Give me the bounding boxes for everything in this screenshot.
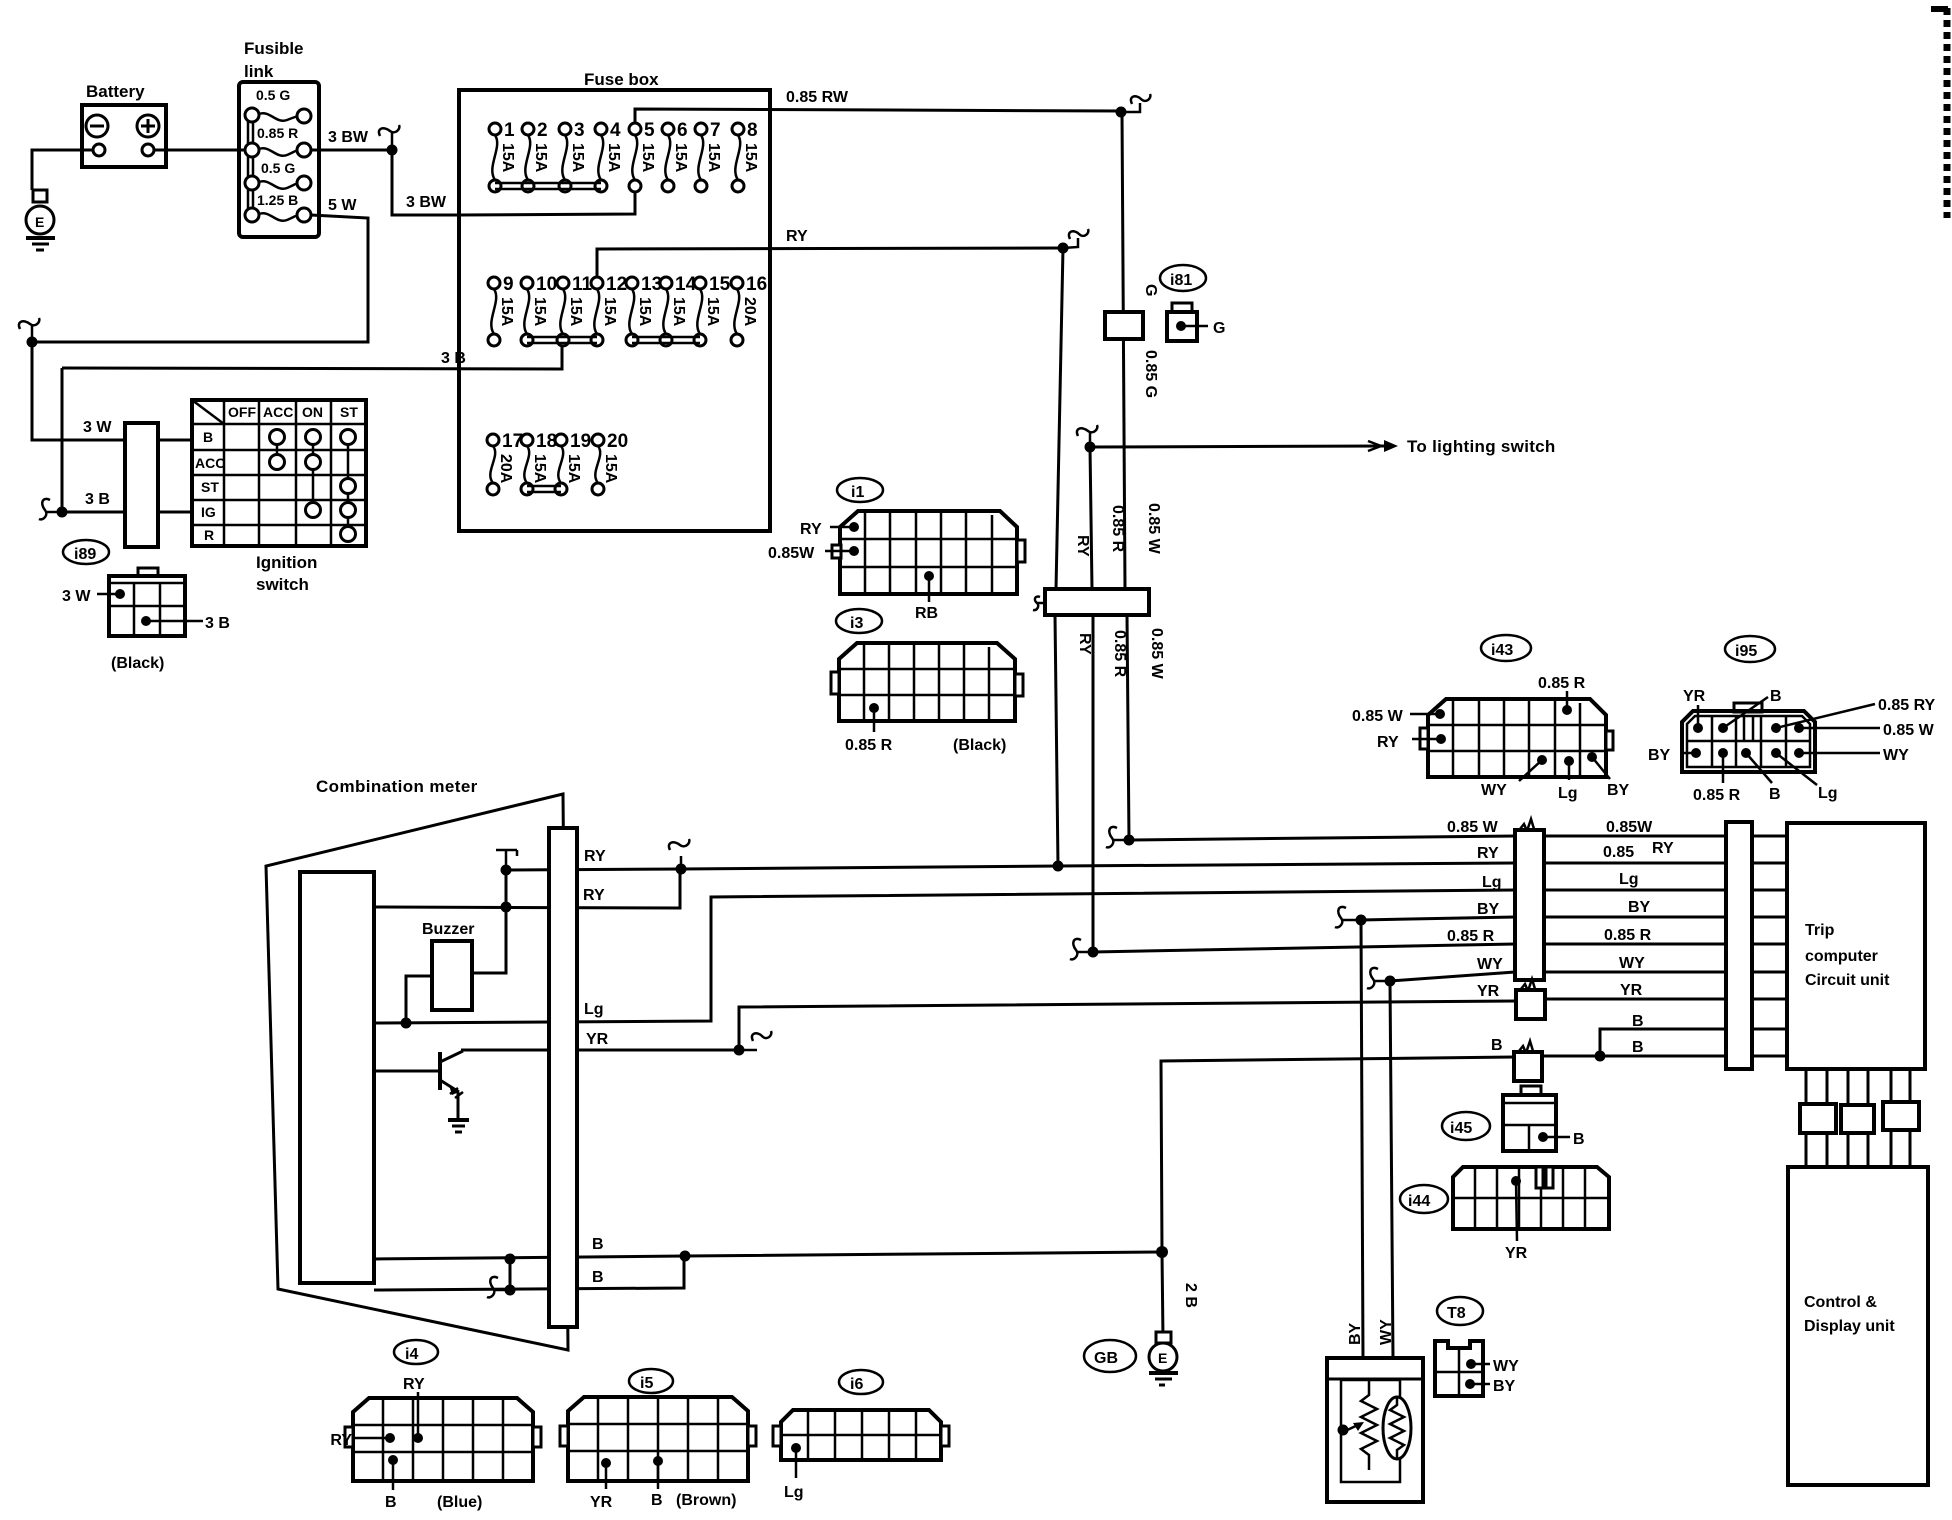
connector box YR xyxy=(1516,979,1545,1019)
node GB junction xyxy=(1156,1246,1168,1258)
pin B i4 xyxy=(385,1455,398,1511)
node YR xyxy=(734,1045,745,1056)
svg-text:2: 2 xyxy=(537,120,548,141)
wire 0.85W below bar xyxy=(1127,615,1129,840)
connector block 1 xyxy=(1800,1104,1836,1133)
svg-text:Buzzer: Buzzer xyxy=(422,921,474,938)
svg-text:15: 15 xyxy=(709,274,731,295)
svg-text:RY: RY xyxy=(1652,840,1674,857)
ignition contacts ACC column xyxy=(270,430,285,470)
svg-text:i95: i95 xyxy=(1735,643,1757,660)
connector bar mid xyxy=(1515,819,1544,980)
ignition contacts ST column xyxy=(341,430,356,542)
wire WY vertical xyxy=(1390,981,1393,1358)
svg-text:19: 19 xyxy=(570,431,591,452)
pin YR i44 xyxy=(1505,1176,1528,1262)
ground E1 xyxy=(26,190,55,250)
svg-text:4: 4 xyxy=(610,120,621,141)
svg-text:3: 3 xyxy=(574,120,585,141)
node 3BW junction xyxy=(387,145,398,156)
svg-text:0.85 R: 0.85 R xyxy=(1604,927,1652,944)
svg-text:E: E xyxy=(1158,1350,1167,1366)
fuse 15 15A xyxy=(694,274,731,346)
pin 0.85W i1 xyxy=(768,545,859,562)
svg-text:B: B xyxy=(385,1494,397,1511)
svg-text:2 B: 2 B xyxy=(1182,1283,1199,1308)
wire to lighting switch xyxy=(1090,446,1384,447)
fuse 18 15A xyxy=(521,431,557,495)
svg-text:B: B xyxy=(1573,1131,1585,1148)
fuse 3 15A xyxy=(559,120,586,192)
connector continuation symbol xyxy=(1063,229,1088,248)
svg-text:RY: RY xyxy=(800,521,822,538)
svg-text:WY: WY xyxy=(1481,782,1507,799)
pin 3B i89 xyxy=(141,615,230,632)
svg-text:0.85 R: 0.85 R xyxy=(1693,787,1741,804)
svg-text:Fuse box: Fuse box xyxy=(584,70,659,89)
fuse 1 15A xyxy=(489,120,516,192)
connector block 2 xyxy=(1841,1105,1874,1133)
svg-text:i6: i6 xyxy=(850,1376,863,1393)
svg-text:16: 16 xyxy=(746,274,767,295)
svg-text:3 BW: 3 BW xyxy=(328,129,369,146)
ignition switch table xyxy=(192,400,366,546)
pin 0.85RY i95 xyxy=(1771,697,1936,733)
connector block 3 xyxy=(1883,1102,1919,1130)
wire BY vertical xyxy=(1361,920,1363,1358)
svg-text:Lg: Lg xyxy=(1619,871,1639,888)
connector box B xyxy=(1514,1041,1542,1081)
arrowhead xyxy=(1384,440,1398,452)
svg-text:3 W: 3 W xyxy=(62,588,91,605)
wires bar to trip unit xyxy=(1752,836,1787,1056)
svg-text:0.85 W: 0.85 W xyxy=(1145,503,1162,555)
fuse 19 15A xyxy=(555,431,591,495)
node B branch xyxy=(1595,1051,1606,1062)
control and display unit xyxy=(1788,1167,1928,1485)
fuse 9 15A xyxy=(488,274,515,346)
svg-text:ON: ON xyxy=(302,404,323,420)
svg-text:Trip: Trip xyxy=(1805,922,1835,939)
svg-text:G: G xyxy=(1142,284,1159,296)
svg-text:WY: WY xyxy=(1883,747,1909,764)
svg-text:11: 11 xyxy=(572,274,593,295)
pin B i95 bottom xyxy=(1741,748,1781,803)
wire battery negative to ground xyxy=(32,150,93,190)
i3 label xyxy=(836,609,882,633)
svg-text:i4: i4 xyxy=(405,1346,418,1363)
svg-text:Display unit: Display unit xyxy=(1804,1318,1895,1335)
svg-text:0.85 R: 0.85 R xyxy=(1538,675,1586,692)
i5 label xyxy=(629,1369,673,1393)
svg-text:15A: 15A xyxy=(636,297,653,327)
svg-text:0.85 W: 0.85 W xyxy=(1447,819,1499,836)
svg-text:G: G xyxy=(1213,320,1225,337)
svg-text:B: B xyxy=(651,1492,663,1509)
svg-text:15A: 15A xyxy=(602,454,619,484)
wire 3B to table xyxy=(158,511,192,514)
i6 label xyxy=(839,1370,883,1394)
B2 stub xyxy=(487,1277,510,1297)
svg-text:0.5 G: 0.5 G xyxy=(261,160,295,176)
svg-text:RY: RY xyxy=(584,848,606,865)
svg-text:0.85 RW: 0.85 RW xyxy=(786,89,849,106)
node 0.85RW junction xyxy=(1116,107,1127,118)
svg-text:ACC: ACC xyxy=(263,404,293,420)
svg-text:15A: 15A xyxy=(531,297,548,327)
svg-text:3 B: 3 B xyxy=(205,615,230,632)
svg-text:0.85W: 0.85W xyxy=(768,545,815,562)
svg-text:5 W: 5 W xyxy=(328,197,357,214)
svg-text:(Brown): (Brown) xyxy=(676,1492,736,1509)
svg-text:GB: GB xyxy=(1094,1350,1118,1367)
svg-text:Ignition: Ignition xyxy=(256,553,317,572)
svg-text:Lg: Lg xyxy=(1558,785,1578,802)
pin WY i95 xyxy=(1794,747,1909,764)
pin 0.85R i3 xyxy=(845,703,893,754)
ignition contacts ON column xyxy=(306,430,321,518)
svg-text:3 W: 3 W xyxy=(83,419,112,436)
bus fuses 13-15 xyxy=(632,337,700,343)
node B2 left xyxy=(505,1285,516,1296)
svg-text:15A: 15A xyxy=(601,297,618,327)
svg-text:15A: 15A xyxy=(639,143,656,173)
svg-text:RY: RY xyxy=(330,1432,352,1449)
svg-text:12: 12 xyxy=(606,274,627,295)
svg-text:computer: computer xyxy=(1805,948,1878,965)
pin RY i4 left xyxy=(330,1432,395,1449)
connector i45 xyxy=(1503,1086,1556,1151)
svg-text:i44: i44 xyxy=(1408,1193,1430,1210)
wire 0.85R below bar xyxy=(1092,615,1095,952)
wire 3W to table xyxy=(158,439,192,442)
node RY corner xyxy=(1058,243,1069,254)
wire 2B ground drop xyxy=(1162,1252,1163,1339)
svg-text:B: B xyxy=(1770,688,1782,705)
node RY1 right xyxy=(1053,861,1064,872)
svg-text:switch: switch xyxy=(256,575,309,594)
connector T8 xyxy=(1435,1341,1483,1396)
buzzer xyxy=(432,941,472,1010)
wire pair 3 below trip xyxy=(1891,1069,1910,1167)
svg-text:link: link xyxy=(244,62,274,81)
svg-text:0.85 RY: 0.85 RY xyxy=(1878,697,1936,714)
svg-text:0.85 G: 0.85 G xyxy=(1142,350,1159,398)
wire G vertical xyxy=(1122,112,1125,589)
svg-text:15A: 15A xyxy=(532,143,549,173)
svg-text:IG: IG xyxy=(201,504,216,520)
fusible link fuse 0.5G xyxy=(245,87,311,123)
T8 label xyxy=(1437,1297,1483,1325)
svg-text:15A: 15A xyxy=(742,143,759,173)
svg-text:20: 20 xyxy=(607,431,628,452)
connector bar top xyxy=(1045,589,1149,615)
ground E2 xyxy=(1149,1332,1178,1385)
svg-text:BY: BY xyxy=(1607,782,1630,799)
i89 label xyxy=(63,540,109,564)
node 3B junction xyxy=(57,507,68,518)
svg-text:WY: WY xyxy=(1619,955,1645,972)
buzzer left lead xyxy=(406,976,432,1023)
i45 label xyxy=(1442,1112,1490,1140)
connector bar right xyxy=(1726,822,1752,1069)
wire pair 1 below trip xyxy=(1806,1069,1827,1167)
connector i3 xyxy=(831,643,1023,721)
svg-text:0.85W: 0.85W xyxy=(1606,819,1653,836)
wire to ignition 3W xyxy=(32,342,125,440)
svg-text:0.85 R: 0.85 R xyxy=(1447,928,1495,945)
svg-text:B: B xyxy=(592,1236,604,1253)
svg-text:B: B xyxy=(1491,1037,1503,1054)
connector continuation symbol xyxy=(1367,968,1390,988)
trip computer circuit unit xyxy=(1787,823,1925,1069)
svg-text:i45: i45 xyxy=(1450,1120,1472,1137)
wire 0.85R horizontal xyxy=(1093,944,1515,952)
svg-text:15A: 15A xyxy=(672,143,689,173)
page edge dashed line xyxy=(1944,8,1951,218)
svg-text:(Black): (Black) xyxy=(953,737,1006,754)
svg-text:0.5 G: 0.5 G xyxy=(256,87,290,103)
wire RY1 xyxy=(506,863,1515,870)
pin 0.85R i43 xyxy=(1538,675,1586,715)
connector continuation symbol xyxy=(19,318,39,342)
resistor sender xyxy=(1361,1380,1377,1470)
connector continuation symbol xyxy=(1121,94,1150,112)
svg-text:WY: WY xyxy=(1378,1319,1395,1345)
svg-text:10: 10 xyxy=(536,274,557,295)
pin YR i5 xyxy=(590,1458,613,1511)
connector continuation symbol xyxy=(39,499,62,519)
svg-text:5: 5 xyxy=(644,120,655,141)
fuse 13 15A xyxy=(626,274,662,346)
connector i1 xyxy=(840,511,1025,594)
node WY xyxy=(1385,976,1396,987)
svg-text:7: 7 xyxy=(710,120,721,141)
svg-text:i1: i1 xyxy=(851,484,864,501)
sender wiper arrow xyxy=(1338,1422,1365,1436)
svg-text:i81: i81 xyxy=(1170,272,1192,289)
svg-text:15A: 15A xyxy=(704,297,721,327)
svg-text:RY: RY xyxy=(1477,845,1499,862)
svg-text:RY: RY xyxy=(1377,734,1399,751)
svg-text:0.85 R: 0.85 R xyxy=(845,737,893,754)
svg-text:15A: 15A xyxy=(565,454,582,484)
i44 label xyxy=(1400,1185,1448,1213)
svg-text:ST: ST xyxy=(340,404,358,420)
i81 label xyxy=(1160,265,1206,291)
wire BY horizontal xyxy=(1361,917,1515,920)
i95 label xyxy=(1725,636,1775,662)
pin WY T8 xyxy=(1466,1358,1519,1375)
svg-text:6: 6 xyxy=(677,120,688,141)
pin B i45 xyxy=(1538,1131,1585,1148)
table headers xyxy=(195,404,358,543)
wire 5W xyxy=(32,215,368,342)
transistor Q1 xyxy=(374,1051,463,1098)
svg-text:Lg: Lg xyxy=(1818,785,1838,802)
svg-text:Lg: Lg xyxy=(1482,874,1502,891)
battery xyxy=(82,105,166,167)
svg-text:B: B xyxy=(203,429,213,445)
node 5W junction xyxy=(27,337,38,348)
node Lg buzzer xyxy=(401,1018,412,1029)
pin BY T8 xyxy=(1465,1378,1516,1395)
fuse 5 15A xyxy=(629,120,656,192)
pin 3W i89 xyxy=(62,588,125,605)
wires mid bar to right bar xyxy=(1541,836,1726,1056)
antenna symbol xyxy=(496,850,517,870)
pin B i95 top xyxy=(1718,688,1782,733)
wire 0.85R vertical xyxy=(1090,447,1092,589)
svg-text:15A: 15A xyxy=(499,143,516,173)
svg-text:15A: 15A xyxy=(567,297,584,327)
svg-text:RY: RY xyxy=(1074,535,1091,557)
connector continuation symbol xyxy=(379,125,399,150)
fuel sender unit xyxy=(1327,1358,1423,1502)
wire B2 xyxy=(374,1256,684,1290)
bus fuses 18-19 xyxy=(527,486,561,492)
svg-text:15A: 15A xyxy=(531,454,548,484)
connector i5 xyxy=(560,1397,756,1481)
fuse 16 20A xyxy=(731,274,767,346)
svg-text:RY: RY xyxy=(583,887,605,904)
connector continuation symbol xyxy=(1106,827,1129,847)
svg-text:BY: BY xyxy=(1628,899,1651,916)
node B1 left xyxy=(505,1254,516,1265)
svg-text:T8: T8 xyxy=(1447,1305,1466,1322)
svg-text:0.85 W: 0.85 W xyxy=(1883,722,1935,739)
wire B1 xyxy=(374,1252,1162,1259)
meter connector bar xyxy=(549,828,577,1327)
svg-text:3 B: 3 B xyxy=(85,491,110,508)
connector continuation symbol xyxy=(739,1031,771,1050)
fuse 20 15A xyxy=(592,431,628,495)
svg-text:Control &: Control & xyxy=(1804,1294,1877,1311)
svg-text:BY: BY xyxy=(1347,1322,1364,1345)
svg-text:OFF: OFF xyxy=(228,404,256,420)
svg-text:BY: BY xyxy=(1493,1378,1516,1395)
connector continuation symbol xyxy=(669,839,689,869)
svg-text:B: B xyxy=(1632,1013,1644,1030)
wire WY horizontal xyxy=(1390,972,1515,981)
fuse 2 15A xyxy=(522,120,549,192)
svg-text:3 B: 3 B xyxy=(441,350,466,367)
svg-text:i43: i43 xyxy=(1491,642,1513,659)
svg-text:YR: YR xyxy=(1477,983,1500,1000)
svg-text:15A: 15A xyxy=(670,297,687,327)
fuse 7 15A xyxy=(695,120,722,192)
fusible link fuse 1.25B xyxy=(245,192,311,222)
svg-text:i5: i5 xyxy=(640,1375,653,1392)
wire pair 2 below trip xyxy=(1848,1069,1868,1167)
svg-text:E: E xyxy=(35,214,44,230)
node B1 mid xyxy=(680,1251,691,1262)
fuse 10 15A xyxy=(521,274,557,346)
svg-text:Combination meter: Combination meter xyxy=(316,777,478,796)
wire RY vertical xyxy=(1056,248,1063,589)
svg-text:15A: 15A xyxy=(605,143,622,173)
i1 label xyxy=(837,478,883,502)
pin WY i43 xyxy=(1481,755,1547,799)
connector i89 xyxy=(109,568,185,636)
node 0.85R xyxy=(1088,947,1099,958)
wire 3B vertical xyxy=(62,368,125,512)
svg-text:WY: WY xyxy=(1477,956,1503,973)
svg-text:ST: ST xyxy=(201,479,219,495)
buzzer right lead xyxy=(472,907,506,973)
svg-text:(Black): (Black) xyxy=(111,655,164,672)
svg-text:i3: i3 xyxy=(850,615,863,632)
pin Lg i95 xyxy=(1771,748,1838,802)
node BY xyxy=(1356,915,1367,926)
GB label xyxy=(1084,1340,1136,1372)
wire RY fuse12 xyxy=(597,248,1063,279)
node RY1 mid xyxy=(676,864,687,875)
connector i6 xyxy=(773,1410,949,1460)
connector i44 xyxy=(1453,1167,1609,1229)
wire battery positive to fusible link xyxy=(154,149,245,152)
bus fuses 1-4 xyxy=(495,183,601,189)
svg-text:3 BW: 3 BW xyxy=(406,194,447,211)
wire 0.85W horizontal xyxy=(1129,836,1515,840)
i43 label xyxy=(1481,635,1531,661)
connector continuation symbol xyxy=(1077,425,1097,447)
pin 0.85R i95 xyxy=(1693,748,1741,804)
svg-text:YR: YR xyxy=(1620,982,1643,999)
pin YR i95 xyxy=(1683,688,1706,733)
svg-text:RY: RY xyxy=(1076,633,1093,655)
fuse 8 15A xyxy=(732,120,759,192)
connector continuation symbol xyxy=(1335,907,1361,927)
connector i81 xyxy=(1167,303,1225,341)
connector i95 xyxy=(1682,703,1815,772)
pin BY i43 xyxy=(1587,752,1630,799)
svg-text:0.85 W: 0.85 W xyxy=(1352,708,1404,725)
svg-text:YR: YR xyxy=(590,1494,613,1511)
pin B i5 xyxy=(651,1456,663,1509)
pin RY i4 top xyxy=(413,1392,423,1443)
svg-text:B: B xyxy=(1632,1039,1644,1056)
bar pigtail xyxy=(1033,597,1045,611)
svg-text:ACC: ACC xyxy=(195,455,225,471)
node 0.85W xyxy=(1124,835,1135,846)
transistor ground xyxy=(448,1092,469,1132)
svg-text:B: B xyxy=(592,1269,604,1286)
svg-text:20A: 20A xyxy=(497,454,514,484)
connector box G xyxy=(1105,312,1143,339)
wire Lg xyxy=(374,890,1515,1023)
svg-text:0.85 R: 0.85 R xyxy=(257,125,298,141)
svg-text:RB: RB xyxy=(915,605,938,622)
fuse box xyxy=(459,90,770,531)
svg-text:RY: RY xyxy=(403,1376,425,1393)
node lighting junction xyxy=(1085,442,1096,453)
ignition switch connector xyxy=(125,423,158,547)
wire RY2 xyxy=(374,869,680,908)
svg-text:RY: RY xyxy=(786,228,808,245)
wire 3BW xyxy=(311,150,458,215)
svg-text:1.25 B: 1.25 B xyxy=(257,192,298,208)
lamp sender xyxy=(1383,1397,1411,1459)
svg-text:(Blue): (Blue) xyxy=(437,1494,482,1511)
wire 3BW to fuse5 xyxy=(458,190,635,215)
wire 0.85RW xyxy=(635,109,1121,125)
fusible link fuse 0.85R xyxy=(245,125,311,157)
svg-text:0.85: 0.85 xyxy=(1603,844,1634,861)
fuse 14 15A xyxy=(660,274,697,346)
combination meter outline xyxy=(266,794,568,1350)
svg-text:Fusible: Fusible xyxy=(244,39,304,58)
